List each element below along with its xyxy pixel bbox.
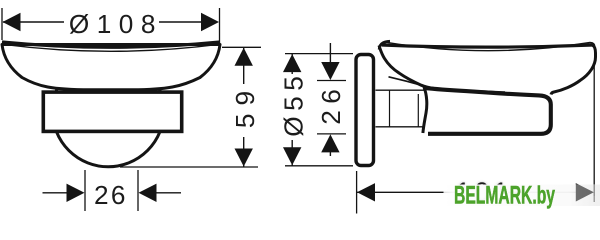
dimension Ø55 extension tick top (285, 53, 353, 55)
dimension 26 (front) extension line right (137, 170, 139, 211)
arm collar line (389, 91, 391, 127)
svg-text:Ø108: Ø108 (69, 9, 163, 39)
cup far rim line (side view) (389, 77, 424, 86)
dish rim outer line (front view) (2, 42, 220, 47)
dimension 26 (front) arrow right-pointing (67, 184, 85, 202)
dimension 101 arrow right-pointing (576, 183, 594, 201)
dimension 59 arrow up (235, 48, 253, 66)
dimension 26 (side) arrow down (321, 62, 339, 80)
dimension Ø55 line lower segment (291, 140, 293, 166)
wall bar bottom line (376, 126, 425, 128)
dimension 26 (side) extension tick bottom (317, 133, 346, 135)
dimension Ø108 arrow right (201, 13, 219, 31)
dimension 26 (front) arrow left-pointing (139, 184, 157, 202)
holder bracket plate (front view) (43, 92, 181, 131)
dimension 26 (side) extension tick top (317, 80, 346, 82)
dimension 101 extension line left (356, 171, 358, 214)
dimension Ø108 leader right (159, 21, 217, 23)
wall plate circle (front view, behind bracket) (52, 55, 163, 166)
svg-text:59: 59 (230, 83, 260, 128)
dish left corner (side view) (379, 41, 390, 49)
dimension 26 (front) extension line left (84, 170, 86, 211)
cup flare arc (423, 87, 427, 133)
dimension 26 (side) arrow up (321, 134, 339, 152)
dish bowl underside left (side view) (379, 46, 505, 93)
dimension Ø108 extension line right (219, 8, 221, 48)
svg-text:BELMARK.by: BELMARK.by (454, 182, 555, 210)
wall plate (side view) (356, 55, 374, 166)
dimension Ø108 arrow left (3, 13, 21, 31)
dimension 101 extension ghost through band (593, 184, 595, 202)
svg-text:Ø55: Ø55 (279, 71, 309, 137)
dish rim inner line (front view) (4, 44, 218, 51)
cup body (side view) (424, 88, 551, 134)
dimension 59 arrow down (235, 149, 253, 167)
dimension Ø55 extension tick bottom (285, 165, 353, 167)
dimension 101 leader right (508, 191, 576, 193)
svg-text:26: 26 (94, 180, 128, 210)
cup near edge line (417, 94, 419, 127)
dimension 26 (front) leader left (43, 192, 69, 194)
dimension 101 leader left (357, 191, 456, 193)
dimension 26 (front) leader right (155, 192, 181, 194)
wall bar top line (376, 89, 425, 91)
dimension Ø55 arrow down (283, 147, 301, 165)
dimension Ø55 arrow up (283, 54, 301, 72)
dimension 101 arrow ghost through band (576, 183, 594, 201)
dish rim near line (side view) (382, 45, 593, 47)
dimension 59 line lower segment (243, 137, 245, 167)
dimension 26 (side) line lower segment (329, 151, 331, 156)
dish bowl underside right (side view) (551, 45, 596, 94)
dimension Ø55 line upper segment (291, 54, 293, 74)
svg-text:26: 26 (316, 83, 346, 125)
dimension 101 extension line right (593, 64, 595, 196)
dimension 59 line upper segment (243, 47, 245, 84)
dish rim far line (side view) (386, 42, 595, 50)
dimension 59 extension tick top (222, 46, 261, 48)
dimension 26 (side) line upper segment (329, 43, 331, 63)
dimension Ø108 extension line left (1, 8, 3, 40)
soap dish bowl (front view) (2, 45, 220, 90)
dimension 59 extension line bottom (from dome) (120, 166, 258, 168)
dimension Ø108 leader left (3, 21, 64, 23)
dimension 101 arrow left-pointing (357, 183, 375, 201)
